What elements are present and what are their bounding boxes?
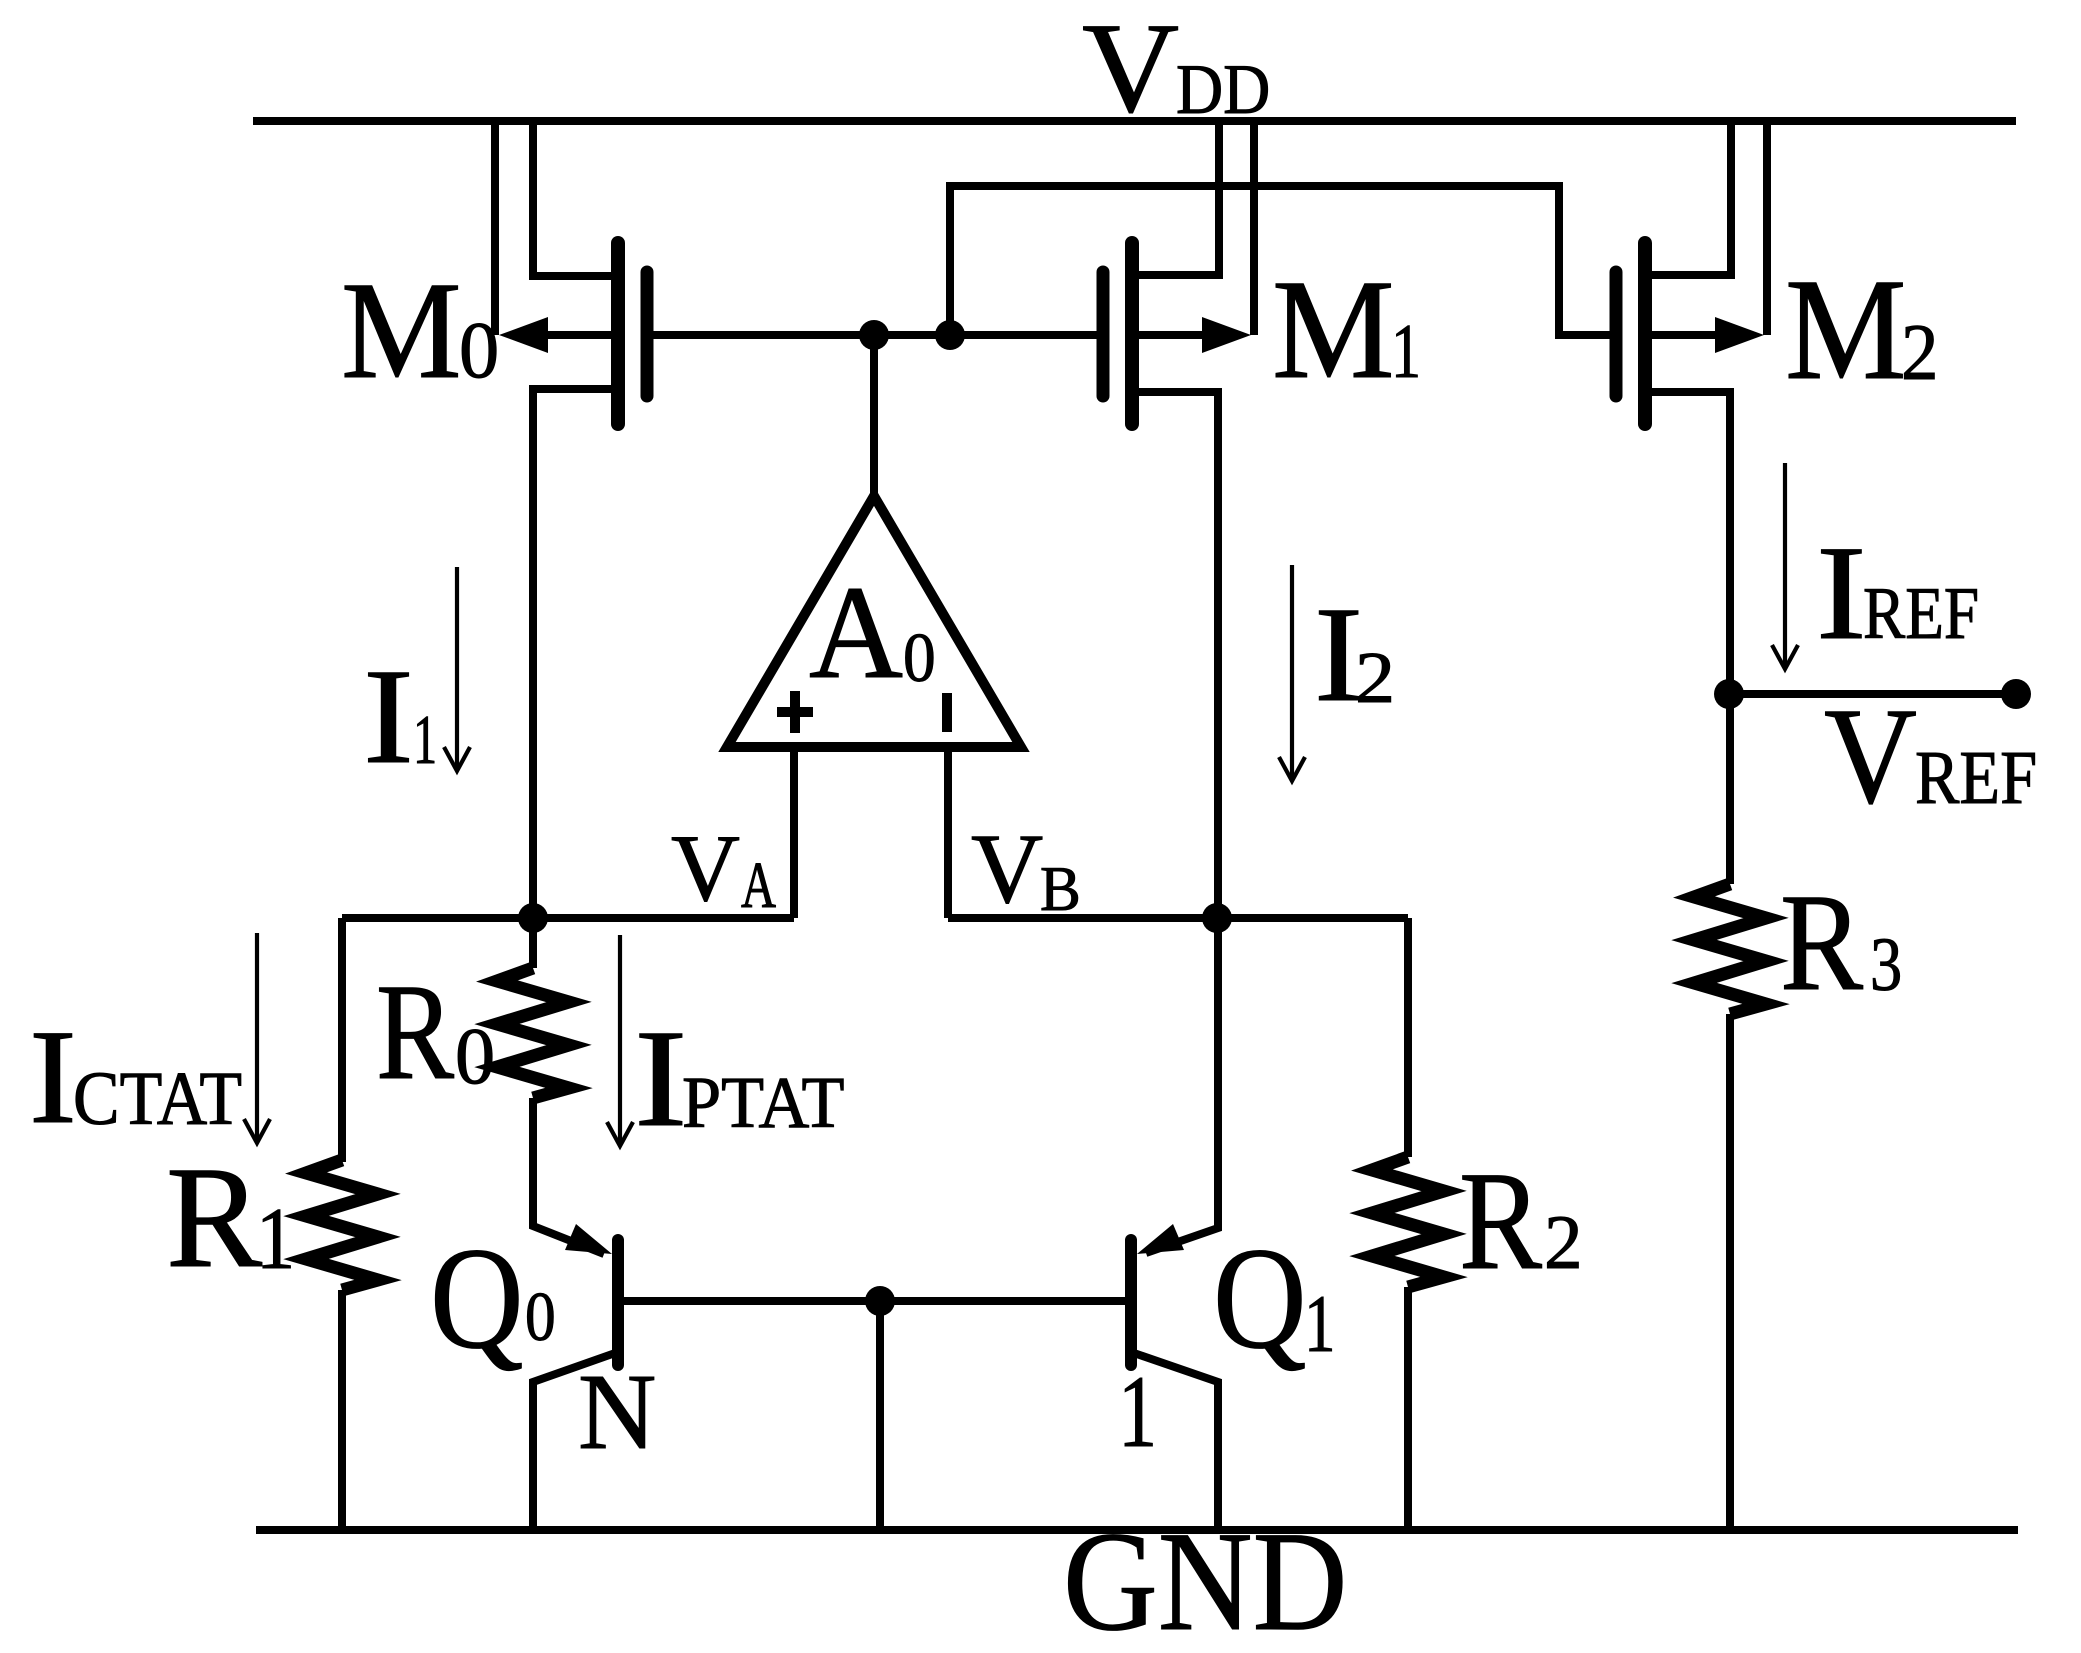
- svg-text:0: 0: [903, 620, 936, 697]
- svg-text:A: A: [809, 558, 903, 706]
- svg-text:B: B: [1040, 853, 1081, 924]
- svg-text:I: I: [1816, 519, 1867, 668]
- svg-text:R: R: [166, 1137, 262, 1298]
- svg-text:0: 0: [455, 1012, 495, 1101]
- svg-text:CTAT: CTAT: [73, 1057, 242, 1141]
- svg-text:0: 0: [459, 306, 499, 395]
- svg-text:I: I: [634, 1002, 688, 1156]
- svg-text:1: 1: [256, 1191, 295, 1288]
- svg-text:V: V: [671, 815, 740, 921]
- svg-text:2: 2: [1355, 637, 1395, 718]
- svg-text:V: V: [971, 813, 1043, 924]
- svg-text:I: I: [363, 640, 414, 792]
- svg-text:1: 1: [1118, 1355, 1157, 1469]
- svg-text:I: I: [29, 1003, 77, 1152]
- svg-text:3: 3: [1870, 923, 1902, 1007]
- svg-text:0: 0: [525, 1279, 556, 1356]
- svg-text:Q: Q: [430, 1217, 524, 1379]
- svg-text:1: 1: [1304, 1278, 1336, 1369]
- svg-text:DD: DD: [1176, 51, 1270, 129]
- svg-text:R: R: [1459, 1143, 1542, 1299]
- svg-text:A: A: [741, 850, 776, 922]
- svg-text:M: M: [1272, 250, 1395, 408]
- svg-text:V: V: [1824, 679, 1917, 832]
- svg-text:R: R: [376, 955, 454, 1108]
- svg-text:GND: GND: [1063, 1502, 1347, 1653]
- svg-text:M: M: [1785, 249, 1907, 410]
- svg-text:REF: REF: [1863, 573, 1979, 655]
- svg-text:M: M: [341, 254, 462, 408]
- svg-text:Q: Q: [1213, 1217, 1307, 1379]
- svg-text:1: 1: [1391, 308, 1421, 394]
- svg-text:PTAT: PTAT: [682, 1062, 844, 1143]
- svg-text:2: 2: [1901, 308, 1939, 397]
- svg-text:1: 1: [413, 702, 437, 779]
- svg-text:2: 2: [1544, 1199, 1583, 1285]
- svg-text:N: N: [578, 1353, 656, 1472]
- svg-text:REF: REF: [1915, 736, 2037, 820]
- svg-text:R: R: [1780, 866, 1863, 1020]
- svg-text:V: V: [1082, 0, 1179, 139]
